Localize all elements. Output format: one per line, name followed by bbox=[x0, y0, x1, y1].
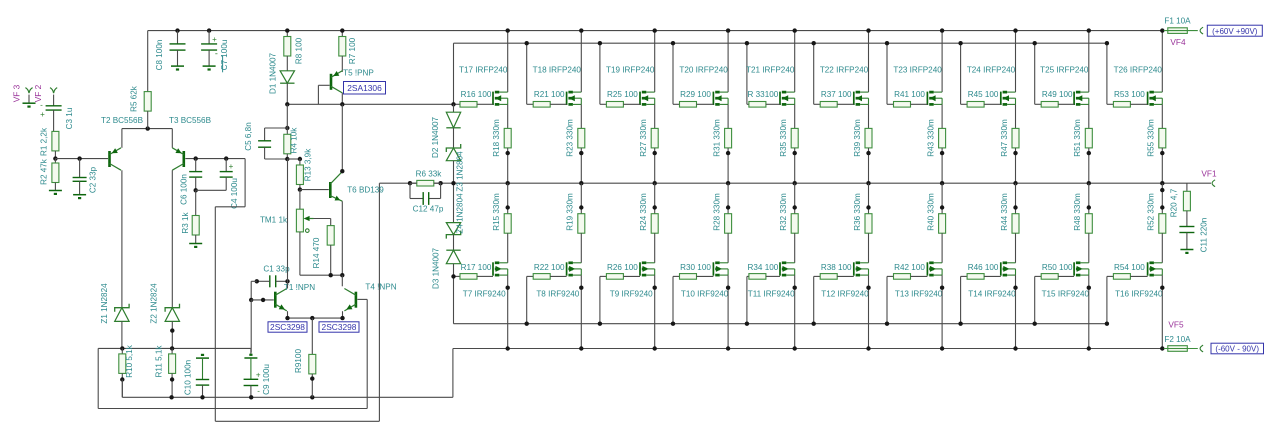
wire drain T16 to -V rail bbox=[1161, 275, 1163, 348]
wire drain T19 to +V rail bbox=[654, 31, 656, 93]
resistor R28 330m bbox=[727, 183, 729, 214]
svg-text:T2 BC556B: T2 BC556B bbox=[101, 116, 143, 125]
wire zener midpoint to output rail bbox=[453, 161, 455, 223]
resistor R22 100 bbox=[527, 275, 534, 277]
resistor R55 330m bbox=[1161, 104, 1163, 128]
wire negative rail bbox=[453, 348, 1162, 350]
wire D3 to bottom gate bus bbox=[453, 264, 455, 324]
svg-text:C9 100u: C9 100u bbox=[262, 364, 271, 395]
capacitor C7 100u bbox=[207, 28, 211, 32]
svg-text:D3 1N4007: D3 1N4007 bbox=[432, 247, 441, 289]
svg-text:R9100: R9100 bbox=[294, 349, 303, 373]
svg-text:R23 330m: R23 330m bbox=[566, 119, 575, 157]
svg-text:C3 1u: C3 1u bbox=[65, 108, 74, 130]
wire gate drop T21 bbox=[746, 43, 748, 104]
wire gate drop T20 bbox=[672, 43, 674, 104]
svg-text:T17 IRFP240: T17 IRFP240 bbox=[459, 65, 508, 74]
wire bias line B bbox=[122, 396, 453, 398]
capacitor C11 220n bbox=[1179, 226, 1194, 228]
svg-text:R4 10k: R4 10k bbox=[290, 127, 299, 154]
svg-text:F1 10A: F1 10A bbox=[1164, 17, 1191, 26]
svg-text:+: + bbox=[212, 35, 217, 44]
wire R4 node to R13 bbox=[287, 158, 300, 160]
svg-text:VF 3: VF 3 bbox=[12, 84, 22, 102]
svg-text:R10 5,1k: R10 5,1k bbox=[125, 344, 134, 377]
wire gate drop T8 bbox=[526, 276, 528, 323]
svg-text:VF5: VF5 bbox=[1168, 320, 1184, 330]
svg-text:R46 100: R46 100 bbox=[968, 263, 999, 272]
resistor R10 5,1k bbox=[121, 348, 123, 354]
svg-text:R19 330m: R19 330m bbox=[566, 193, 575, 231]
resistor R41 100 bbox=[887, 103, 894, 105]
svg-text:2SC3298: 2SC3298 bbox=[322, 322, 357, 332]
svg-text:VF4: VF4 bbox=[1170, 37, 1186, 47]
svg-text:R44 330m: R44 330m bbox=[1000, 193, 1009, 231]
resistor R36 330m bbox=[868, 183, 870, 214]
svg-text:R24 330m: R24 330m bbox=[639, 193, 648, 231]
resistor R6 33k bbox=[408, 181, 412, 185]
resistor R53 100 bbox=[1107, 103, 1114, 105]
wire drain T15 to -V rail bbox=[1088, 275, 1090, 348]
wire drain T24 to +V rail bbox=[1015, 31, 1017, 93]
transistor T25 IRFP240 bbox=[1073, 92, 1075, 105]
terminal VF2 bbox=[50, 88, 57, 94]
wire T1 collector bbox=[287, 159, 289, 289]
wire drain T23 to +V rail bbox=[941, 31, 943, 93]
svg-text:R28 330m: R28 330m bbox=[712, 193, 721, 231]
svg-text:R13 3,9k: R13 3,9k bbox=[304, 148, 313, 181]
wire T3 base node bbox=[185, 158, 245, 160]
capacitor C3 1u bbox=[53, 95, 55, 106]
svg-text:-: - bbox=[215, 49, 218, 59]
transistor T4 2SC3298 NPN bbox=[355, 292, 358, 308]
wire drain T8 to -V rail bbox=[580, 275, 582, 348]
resistor R16 100 bbox=[454, 103, 461, 105]
transistor T16 IRF9240 bbox=[1147, 262, 1149, 275]
wire T2 collector to Z1 bbox=[121, 170, 123, 308]
resistor R39 330m bbox=[868, 104, 870, 128]
wire drain T21 to +V rail bbox=[794, 31, 796, 93]
resistor R42 100 bbox=[887, 275, 894, 277]
svg-text:R8 100: R8 100 bbox=[295, 37, 304, 64]
wire bottom gate bus bbox=[454, 323, 1107, 325]
svg-text:(+60V +90V): (+60V +90V) bbox=[1212, 27, 1258, 36]
svg-text:C12 47p: C12 47p bbox=[413, 205, 444, 214]
svg-text:R52 330m: R52 330m bbox=[1147, 193, 1156, 231]
wire bias line D bbox=[97, 348, 99, 408]
wire drain T22 to +V rail bbox=[868, 31, 870, 93]
diode D1 1N4007 bbox=[286, 56, 288, 71]
svg-text:Z4 1N2804: Z4 1N2804 bbox=[456, 193, 465, 234]
resistor R44 330m bbox=[1015, 183, 1017, 214]
wire output rail bbox=[379, 182, 1211, 184]
svg-text:T6 BD139: T6 BD139 bbox=[347, 185, 384, 194]
wire T4 collector bbox=[341, 275, 343, 286]
ground C11 bbox=[1180, 249, 1193, 251]
svg-text:F2 10A: F2 10A bbox=[1164, 335, 1191, 344]
svg-text:T20 IRFP240: T20 IRFP240 bbox=[679, 65, 728, 74]
transistor T22 IRFP240 bbox=[853, 92, 855, 105]
wire gate drop T12 bbox=[813, 276, 815, 323]
resistor R7 100 bbox=[341, 31, 343, 37]
transistor T18 IRFP240 bbox=[566, 92, 568, 105]
label box 2SA1306 bbox=[344, 82, 386, 95]
wire T6 collector bbox=[341, 104, 343, 171]
svg-text:T18 IRFP240: T18 IRFP240 bbox=[533, 65, 582, 74]
ground C8 bbox=[171, 65, 184, 67]
transistor T3 BC556B bbox=[183, 151, 186, 167]
transistor T14 IRF9240 bbox=[1000, 262, 1002, 275]
svg-text:R15 330m: R15 330m bbox=[492, 193, 501, 231]
svg-text:-: - bbox=[257, 386, 260, 395]
wire T5 base bbox=[318, 84, 329, 86]
svg-text:R7 100: R7 100 bbox=[348, 37, 357, 64]
resistor R26 100 bbox=[600, 275, 607, 277]
zener Z2 1N2824 bbox=[165, 308, 179, 322]
svg-text:T23 IRFP240: T23 IRFP240 bbox=[893, 65, 942, 74]
transistor T9 IRF9240 bbox=[639, 262, 641, 275]
wire top +V rail bbox=[148, 30, 1163, 32]
capacitor C5 6,8n bbox=[285, 126, 289, 130]
diode D2 1N4007 bbox=[453, 104, 455, 112]
resistor R25 100 bbox=[600, 103, 607, 105]
terminal VF5 bbox=[1200, 345, 1203, 352]
svg-text:R36 330m: R36 330m bbox=[853, 193, 862, 231]
resistor R47 330m bbox=[1015, 104, 1017, 128]
resistor R38 100 bbox=[814, 275, 821, 277]
svg-text:R39 330m: R39 330m bbox=[853, 119, 862, 157]
svg-text:(-60V - 90V): (-60V - 90V) bbox=[1215, 345, 1259, 354]
svg-text:R1 2,2k: R1 2,2k bbox=[40, 127, 49, 156]
resistor R34 100 bbox=[747, 275, 749, 277]
svg-text:R16 100: R16 100 bbox=[461, 90, 492, 99]
wire T1/T4 emitter rail bbox=[287, 311, 289, 318]
resistor R40 330m bbox=[941, 183, 943, 214]
capacitor C2 33p bbox=[77, 156, 81, 160]
wire T1 base to line A / C9 bbox=[250, 300, 252, 353]
svg-text:R11 5,1k: R11 5,1k bbox=[155, 345, 164, 378]
svg-text:R26 100: R26 100 bbox=[607, 263, 638, 272]
wire T3 emitter bbox=[171, 129, 173, 148]
wire gate drop T15 bbox=[1034, 276, 1036, 323]
wire drain T9 to -V rail bbox=[654, 275, 656, 348]
svg-text:TM1 1k: TM1 1k bbox=[260, 215, 288, 224]
wire input node to T2 base bbox=[55, 158, 108, 160]
svg-text:T8 IRF9240: T8 IRF9240 bbox=[536, 289, 579, 298]
svg-text:C7 100u: C7 100u bbox=[220, 40, 229, 71]
resistor R14 470 bbox=[327, 226, 334, 246]
zener Z1 1N2824 bbox=[115, 308, 129, 322]
fuse F2 10A bbox=[1168, 346, 1188, 352]
svg-text:Z3 1N2804: Z3 1N2804 bbox=[456, 151, 465, 192]
capacitor C10 100n bbox=[201, 354, 204, 356]
svg-text:D2 1N4007: D2 1N4007 bbox=[431, 116, 440, 158]
wire drain T17 to +V rail bbox=[507, 31, 509, 93]
wire gate drop T23 bbox=[886, 43, 888, 104]
ground C2 bbox=[73, 194, 86, 196]
svg-text:C11 220n: C11 220n bbox=[1200, 218, 1209, 253]
wire gate drop T24 bbox=[960, 43, 962, 104]
wire drain T18 to +V rail bbox=[580, 31, 582, 93]
wire drain T12 to -V rail bbox=[868, 275, 870, 348]
capacitor C9 100u bbox=[250, 348, 252, 355]
wire gate drop T26 bbox=[1106, 43, 1108, 104]
diode D3 1N4007 bbox=[453, 235, 455, 251]
wire bias node bbox=[299, 232, 301, 275]
resistor R31 330m bbox=[727, 104, 729, 128]
svg-text:T15 IRF9240: T15 IRF9240 bbox=[1042, 289, 1090, 298]
wire T2 emitter bbox=[121, 129, 123, 148]
wire gate drop T13 bbox=[886, 276, 888, 323]
resistor R48 330m bbox=[1088, 183, 1090, 214]
svg-text:T26 IRFP240: T26 IRFP240 bbox=[1114, 65, 1163, 74]
transistor T21 IRFP240 bbox=[779, 92, 781, 105]
wire gate drop T14 bbox=[960, 276, 962, 323]
wire T1 base bbox=[250, 281, 252, 300]
svg-text:T14 IRF9240: T14 IRF9240 bbox=[968, 289, 1016, 298]
wire gate drop T22 bbox=[813, 43, 815, 104]
svg-text:C6 100n: C6 100n bbox=[180, 174, 189, 205]
svg-text:R30 100: R30 100 bbox=[680, 263, 711, 272]
svg-text:R14 470: R14 470 bbox=[312, 237, 321, 268]
wire T5 collector to gate bus bbox=[287, 103, 453, 105]
resistor R13 3,9k bbox=[299, 159, 301, 165]
svg-text:R35 330m: R35 330m bbox=[779, 119, 788, 157]
svg-text:R54 100: R54 100 bbox=[1114, 263, 1145, 272]
svg-text:C1 33p: C1 33p bbox=[263, 264, 290, 273]
resistor R49 100 bbox=[1035, 103, 1042, 105]
svg-text:T21 IRFP240: T21 IRFP240 bbox=[746, 65, 795, 74]
zener Z3 1N2804 bbox=[453, 128, 455, 148]
svg-text:+: + bbox=[229, 162, 234, 171]
svg-text:T24 IRFP240: T24 IRFP240 bbox=[967, 65, 1016, 74]
svg-text:R48 330m: R48 330m bbox=[1073, 193, 1082, 231]
wire gate drop T19 bbox=[599, 43, 601, 104]
transistor T2 BC556B bbox=[108, 151, 111, 167]
net label (-60V - 90V) bbox=[1211, 343, 1264, 354]
transistor T17 IRFP240 bbox=[492, 92, 494, 105]
svg-text:R18 330m: R18 330m bbox=[492, 119, 501, 157]
wire gate drop T18 bbox=[526, 43, 528, 104]
svg-text:R42 100: R42 100 bbox=[894, 263, 925, 272]
wire drain T10 to -V rail bbox=[727, 275, 729, 348]
svg-text:R50 100: R50 100 bbox=[1042, 263, 1073, 272]
svg-text:R32 330m: R32 330m bbox=[779, 193, 788, 231]
resistor R17 100 bbox=[454, 275, 461, 277]
svg-text:R21 100: R21 100 bbox=[534, 90, 565, 99]
svg-text:R22 100: R22 100 bbox=[534, 263, 565, 272]
resistor R51 330m bbox=[1088, 104, 1090, 128]
svg-text:T1 !NPN: T1 !NPN bbox=[284, 283, 315, 292]
wire drain T7 to -V rail bbox=[507, 275, 509, 348]
resistor R30 100 bbox=[673, 275, 680, 277]
resistor R1 2,2k bbox=[53, 110, 55, 131]
wire gate drop T11 bbox=[746, 276, 748, 323]
resistor R15 330m bbox=[507, 183, 509, 214]
capacitor C8 100n bbox=[175, 28, 179, 32]
svg-text:T22 IRFP240: T22 IRFP240 bbox=[820, 65, 869, 74]
svg-text:R3 1k: R3 1k bbox=[181, 211, 190, 233]
svg-text:R 33100: R 33100 bbox=[748, 90, 779, 99]
svg-text:C4 100u: C4 100u bbox=[230, 178, 239, 209]
svg-text:R2 47k: R2 47k bbox=[40, 158, 49, 185]
ground R3 bbox=[189, 243, 202, 245]
wire drain T25 to +V rail bbox=[1088, 31, 1090, 93]
wire gate drop T9 bbox=[599, 276, 601, 323]
svg-text:R6 33k: R6 33k bbox=[416, 170, 443, 179]
resistor R24 330m bbox=[654, 183, 656, 214]
wire emitter rail bbox=[122, 128, 172, 130]
resistor R52 330m bbox=[1161, 183, 1163, 214]
svg-text:Z1 1N2824: Z1 1N2824 bbox=[100, 283, 109, 324]
resistor R35 330m bbox=[794, 104, 796, 128]
resistor R8 100 bbox=[286, 31, 288, 37]
resistor R33 100 bbox=[747, 103, 749, 105]
terminal VF3 bbox=[25, 88, 32, 94]
transistor T23 IRFP240 bbox=[926, 92, 928, 105]
svg-text:R43 330m: R43 330m bbox=[926, 119, 935, 157]
svg-text:R45 100: R45 100 bbox=[968, 90, 999, 99]
svg-text:R5 62k: R5 62k bbox=[130, 85, 139, 112]
svg-text:Z2 1N2824: Z2 1N2824 bbox=[150, 283, 159, 324]
zener Z4 1N2804 bbox=[446, 223, 460, 235]
capacitor C6 100n bbox=[195, 159, 197, 172]
svg-text:T19 IRFP240: T19 IRFP240 bbox=[606, 65, 655, 74]
svg-text:R38 100: R38 100 bbox=[821, 263, 852, 272]
wire feedback bottom run bbox=[215, 420, 379, 422]
resistor R32 330m bbox=[794, 183, 796, 214]
svg-text:C8 100n: C8 100n bbox=[155, 40, 164, 71]
svg-text:+: + bbox=[40, 110, 45, 119]
svg-text:R17 100: R17 100 bbox=[461, 263, 492, 272]
wire drain T11 to -V rail bbox=[794, 275, 796, 348]
transistor T20 IRFP240 bbox=[712, 92, 714, 105]
transistor T6 BD139 bbox=[300, 189, 329, 191]
fuse F1 10A bbox=[1168, 28, 1188, 34]
svg-text:R37 100: R37 100 bbox=[821, 90, 852, 99]
svg-text:T13 IRF9240: T13 IRF9240 bbox=[895, 289, 943, 298]
terminal VF1 bbox=[1212, 180, 1215, 187]
svg-text:C10 100n: C10 100n bbox=[184, 360, 193, 395]
wire gate drop T10 bbox=[672, 276, 674, 323]
svg-text:T25 IRFP240: T25 IRFP240 bbox=[1040, 65, 1089, 74]
svg-text:R31 330m: R31 330m bbox=[712, 119, 721, 157]
wire top gate bus bbox=[454, 42, 1107, 44]
transistor T13 IRF9240 bbox=[926, 262, 928, 275]
ground VF3 bbox=[28, 95, 30, 104]
wire TM1 wiper to R14 bbox=[314, 218, 331, 220]
svg-text:2SC3298: 2SC3298 bbox=[270, 322, 305, 332]
svg-text:+: + bbox=[256, 370, 261, 379]
wire bias line A bbox=[98, 347, 251, 349]
svg-text:T12 IRF9240: T12 IRF9240 bbox=[821, 289, 869, 298]
svg-text:R29 100: R29 100 bbox=[680, 90, 711, 99]
resistor R18 330m bbox=[507, 104, 509, 128]
ground C7 bbox=[203, 65, 216, 67]
transistor T5 2SA1306 PNP bbox=[341, 56, 343, 72]
resistor R46 100 bbox=[961, 275, 968, 277]
svg-text:R49 100: R49 100 bbox=[1042, 90, 1073, 99]
trimmer TM1 1k bbox=[299, 190, 301, 210]
resistor R29 100 bbox=[673, 103, 680, 105]
svg-text:R41 100: R41 100 bbox=[894, 90, 925, 99]
wire T6 emitter bbox=[341, 201, 343, 275]
wire T3 collector to Z2 bbox=[171, 170, 173, 308]
resistor R3 1k bbox=[195, 190, 197, 215]
transistor T24 IRFP240 bbox=[1000, 92, 1002, 105]
resistor R37 100 bbox=[814, 103, 821, 105]
svg-text:R27 330m: R27 330m bbox=[639, 119, 648, 157]
svg-text:T11 IRF9240: T11 IRF9240 bbox=[748, 289, 795, 298]
svg-text:R25 100: R25 100 bbox=[607, 90, 638, 99]
svg-text:T5 !PNP: T5 !PNP bbox=[343, 69, 374, 78]
resistor R9 100 bbox=[311, 318, 313, 354]
svg-text:C5 6,8n: C5 6,8n bbox=[244, 122, 253, 150]
net label (+60V +90V) bbox=[1207, 25, 1262, 36]
svg-text:R20 4,7: R20 4,7 bbox=[1170, 188, 1179, 217]
wire feedback from T3 base bbox=[244, 159, 246, 207]
resistor R43 330m bbox=[941, 104, 943, 128]
transistor T19 IRFP240 bbox=[639, 92, 641, 105]
resistor R54 100 bbox=[1107, 275, 1114, 277]
wire gate drop T25 bbox=[1034, 43, 1036, 104]
wire T4 base bbox=[357, 298, 367, 300]
resistor R23 330m bbox=[580, 104, 582, 128]
wire drain T20 to +V rail bbox=[727, 31, 729, 93]
svg-text:R55 330m: R55 330m bbox=[1147, 119, 1156, 157]
svg-text:D1 1N4007: D1 1N4007 bbox=[269, 52, 278, 94]
wire drain T14 to -V rail bbox=[1015, 275, 1017, 348]
svg-text:R47 330m: R47 330m bbox=[1000, 119, 1009, 157]
svg-text:VF1: VF1 bbox=[1201, 168, 1217, 178]
svg-text:R53 100: R53 100 bbox=[1114, 90, 1145, 99]
resistor R2 47k bbox=[54, 159, 56, 163]
wire gate drop T16 bbox=[1106, 276, 1108, 323]
resistor R21 100 bbox=[527, 103, 534, 105]
transistor T26 IRFP240 bbox=[1147, 92, 1149, 105]
resistor R4 10k bbox=[286, 104, 288, 134]
svg-text:R51 330m: R51 330m bbox=[1073, 119, 1082, 157]
resistor R5 62k bbox=[147, 31, 149, 92]
resistor R50 100 bbox=[1035, 275, 1042, 277]
svg-text:R34 100: R34 100 bbox=[748, 263, 779, 272]
transistor T12 IRF9240 bbox=[853, 262, 855, 275]
svg-text:T7 IRF9240: T7 IRF9240 bbox=[463, 289, 506, 298]
svg-text:2SA1306: 2SA1306 bbox=[347, 83, 382, 93]
transistor T15 IRF9240 bbox=[1073, 262, 1075, 275]
resistor R27 330m bbox=[654, 104, 656, 128]
svg-text:T9 IRF9240: T9 IRF9240 bbox=[610, 289, 653, 298]
wire drain T26 to +V rail bbox=[1161, 31, 1163, 93]
svg-text:C2 33p: C2 33p bbox=[89, 166, 98, 193]
resistor R11 5,1k bbox=[171, 348, 173, 354]
svg-text:T10 IRF9240: T10 IRF9240 bbox=[681, 289, 729, 298]
transistor T11 IRF9240 bbox=[779, 262, 781, 275]
wire drain T13 to -V rail bbox=[941, 275, 943, 348]
ground R2 bbox=[49, 190, 62, 192]
svg-text:T4 !NPN: T4 !NPN bbox=[365, 282, 396, 291]
transistor T1 2SC3298 NPN bbox=[274, 292, 277, 308]
transistor T8 IRF9240 bbox=[566, 262, 568, 275]
node input bias bbox=[53, 156, 57, 160]
wire line B to -V rail bbox=[452, 349, 454, 398]
terminal VF4 bbox=[1200, 27, 1203, 34]
transistor T10 IRF9240 bbox=[712, 262, 714, 275]
resistor R20 4,7 bbox=[1186, 183, 1188, 191]
capacitor C12 47p bbox=[409, 183, 411, 198]
svg-text:T16 IRF9240: T16 IRF9240 bbox=[1115, 289, 1163, 298]
transistor T7 IRF9240 bbox=[492, 262, 494, 275]
